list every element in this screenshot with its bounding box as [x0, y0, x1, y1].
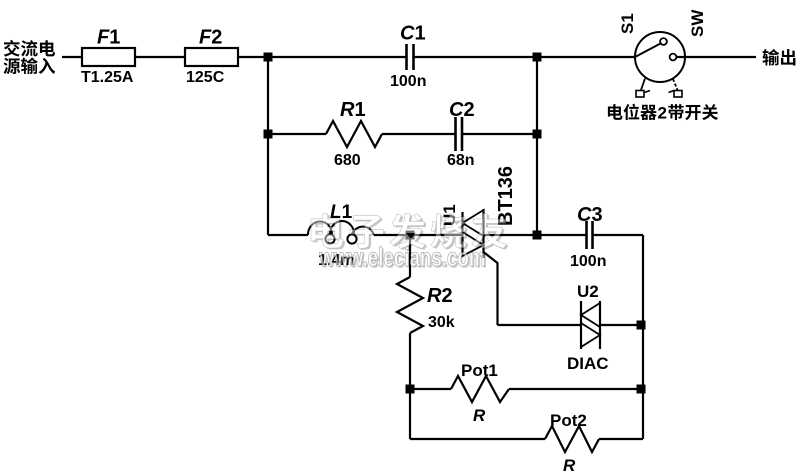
svg-text:F2: F2 — [199, 27, 222, 49]
label BT136 — [495, 166, 517, 226]
capacitor C3 — [587, 221, 593, 249]
label C2 — [449, 99, 475, 121]
svg-text:U2: U2 — [577, 282, 599, 301]
svg-text:Pot1: Pot1 — [461, 361, 498, 380]
svg-text:R1: R1 — [340, 99, 366, 121]
node AC input label 交流电源输入 — [3, 40, 55, 74]
triac U1 symbol — [463, 209, 484, 258]
svg-text:R: R — [473, 406, 486, 425]
label S1 — [618, 13, 637, 34]
value 125C — [186, 69, 225, 86]
capacitor C1 — [407, 44, 414, 70]
watermark www.elecians.com — [319, 242, 487, 274]
label Pot1 — [461, 361, 498, 380]
svg-text:DIAC: DIAC — [567, 354, 609, 373]
label Pot2 — [550, 411, 587, 430]
node junction pot1 right — [637, 385, 646, 394]
wire switch to output — [677, 56, 757, 58]
value 1.4m — [318, 252, 354, 269]
node junction R2 top — [406, 231, 415, 240]
wire gate to DIAC — [498, 324, 582, 326]
node junction pot1 left — [406, 385, 415, 394]
wire triac gate — [484, 252, 498, 325]
value DIAC — [567, 354, 609, 373]
wire Pot2 to right rail — [599, 438, 643, 440]
wire C3 to right rail — [593, 234, 643, 236]
wire pot1 left — [410, 388, 451, 390]
value 100n C1 — [390, 73, 426, 90]
wire C1 to switch — [414, 56, 635, 58]
capacitor C2 — [456, 117, 463, 151]
node junction left row2 — [264, 130, 273, 139]
switch S1 body — [635, 32, 685, 82]
value T1.25A — [81, 69, 134, 86]
label 电位器2带开关 — [608, 104, 718, 123]
svg-text:F1: F1 — [97, 27, 120, 49]
wire pot1 right — [509, 388, 643, 390]
wire right rail — [642, 235, 644, 439]
wire input to F1 — [62, 56, 82, 58]
svg-text:BT136: BT136 — [495, 166, 517, 226]
wire mid to C3 — [537, 234, 586, 236]
svg-text:C3: C3 — [577, 204, 603, 226]
wire DIAC to right rail — [600, 324, 643, 326]
value 30k — [428, 314, 455, 331]
wire R2 top — [409, 235, 411, 277]
resistor R1 — [326, 121, 382, 147]
node junction mid row2 — [533, 130, 542, 139]
svg-text:C2: C2 — [449, 99, 475, 121]
resistor R2 — [397, 277, 423, 333]
value R Pot1 — [473, 406, 486, 425]
potentiometer Pot1 — [451, 376, 509, 402]
wire bottom to Pot2 — [410, 438, 545, 440]
node junction mid row3 — [533, 231, 542, 240]
label U1 — [440, 204, 459, 226]
svg-text:68n: 68n — [447, 152, 475, 169]
svg-text:Pot2: Pot2 — [550, 411, 587, 430]
wire mid rail — [536, 57, 538, 235]
label R1 — [340, 99, 366, 121]
watermark 电子发烧友 — [311, 213, 509, 250]
node junction top-mid — [533, 53, 542, 62]
svg-text:T1.25A: T1.25A — [81, 69, 134, 86]
svg-text:SW: SW — [688, 9, 707, 37]
svg-text:R: R — [563, 456, 576, 475]
value 68n — [447, 152, 475, 169]
wire F1 to F2 — [135, 56, 185, 58]
svg-text:100n: 100n — [570, 253, 606, 270]
label F1 — [97, 27, 120, 49]
node junction DIAC right — [637, 321, 646, 330]
switch S1 left terminal — [636, 79, 650, 98]
diac U2 symbol — [581, 301, 600, 349]
wire L1 to triac — [374, 234, 462, 236]
potentiometer Pot2 — [545, 426, 599, 452]
svg-text:680: 680 — [334, 152, 361, 169]
wire left rail — [267, 57, 269, 235]
label U2 — [577, 282, 599, 301]
label L1 — [330, 202, 353, 223]
svg-text:2: 2 — [658, 104, 667, 123]
switch S1 right terminal — [669, 79, 683, 97]
wire triac to mid — [484, 234, 537, 236]
wire F2 to C1 — [238, 56, 406, 58]
svg-text:100n: 100n — [390, 73, 426, 90]
inductor L1 — [308, 221, 374, 244]
svg-text:www.elecians.com: www.elecians.com — [319, 242, 486, 272]
svg-text:C1: C1 — [400, 23, 426, 45]
fuse F2 — [185, 48, 238, 66]
svg-text:125C: 125C — [186, 69, 225, 86]
node junction top-left — [264, 53, 273, 62]
wire left bottom vertical — [409, 389, 411, 439]
label F2 — [199, 27, 222, 49]
svg-text:S1: S1 — [618, 13, 637, 34]
wire left corner to L1 — [268, 234, 308, 236]
wire left to R1 — [268, 133, 326, 135]
svg-text:30k: 30k — [428, 314, 455, 331]
wire R1 to C2 — [382, 133, 455, 135]
label C1 — [400, 23, 426, 45]
label C3 — [577, 204, 603, 226]
svg-text:R2: R2 — [427, 285, 453, 307]
value 680 — [334, 152, 361, 169]
wire C2 to mid rail — [463, 133, 538, 135]
value R Pot2 — [563, 456, 576, 475]
fuse F1 — [82, 48, 135, 66]
watermark overlay highlight — [311, 213, 507, 272]
label R2 — [427, 285, 453, 307]
wire R2 bottom — [409, 333, 411, 389]
node output label 输出 — [763, 49, 796, 66]
value 100n C3 — [570, 253, 606, 270]
label SW — [688, 9, 707, 37]
